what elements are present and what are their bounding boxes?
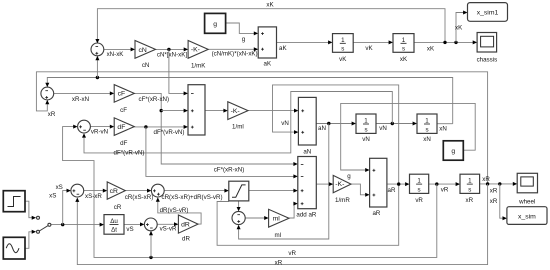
svg-text:aN: aN <box>303 148 311 155</box>
wire xN output corner (joins xN feedback line) <box>437 123 453 125</box>
svg-text:g: g <box>347 173 351 180</box>
svg-text:dR: dR <box>181 221 190 228</box>
wire aN output to vN integrator <box>316 122 356 126</box>
svg-text:-K-: -K- <box>191 47 200 54</box>
svg-text:s: s <box>341 46 344 53</box>
wire sum2 output xR-xN to cF <box>54 91 114 95</box>
svg-text:cN*[xN-xK]: cN*[xN-xK] <box>157 51 188 58</box>
svg-text:Δt: Δt <box>111 227 117 234</box>
wire aR branch vertical down to saturation bottom <box>217 184 399 245</box>
svg-text:aK: aK <box>279 45 287 52</box>
svg-text:xR-xN: xR-xN <box>72 96 89 103</box>
svg-text:1: 1 <box>341 37 345 44</box>
wire vK output to xK integrator <box>353 40 393 44</box>
to-workspace x_sim <box>507 207 547 225</box>
sum S2 (xR-xN) <box>41 87 54 100</box>
wire cF branch to addN input 2 <box>161 109 188 113</box>
svg-text:xR: xR <box>275 259 283 266</box>
svg-text:vN: vN <box>379 125 387 132</box>
wire add aR output to 1/mR <box>316 182 333 186</box>
junction dot xS <box>61 223 64 226</box>
svg-text:1: 1 <box>364 118 368 125</box>
svg-text:xR: xR <box>490 187 498 194</box>
junction dot xK to x_sim1 <box>454 41 457 44</box>
wire xN feedback line to sum2 top <box>45 78 452 124</box>
scope chassis <box>477 33 498 64</box>
svg-text:s: s <box>402 46 405 53</box>
svg-text:x_sim1: x_sim1 <box>477 10 499 17</box>
svg-text:g: g <box>451 148 455 155</box>
wire aK output to vK integrator <box>277 40 333 44</box>
wire aN branch down to sum7 bottom <box>237 124 329 240</box>
svg-text:cF: cF <box>120 107 127 114</box>
wire ml output up to add aR input 4 <box>289 202 298 218</box>
svg-text:xN-xK: xN-xK <box>107 51 125 58</box>
gain 1/ml <box>228 102 248 131</box>
integrator vK <box>333 34 354 63</box>
scope wheel <box>517 173 537 205</box>
gain ml <box>269 209 289 239</box>
wire aR branch vertical up to aN input 2 <box>273 85 399 184</box>
svg-text:add aR: add aR <box>296 212 316 219</box>
svg-text:g: g <box>242 36 246 43</box>
svg-text:1: 1 <box>417 178 421 185</box>
wire xK branch to x_sim1 <box>456 11 468 43</box>
svg-text:aR: aR <box>372 210 380 217</box>
wire cN output with junction to 1/mK <box>156 47 189 51</box>
junction dot vR line to sum6 <box>149 256 152 259</box>
sum S4 (xS-xR) <box>71 184 84 197</box>
sum S7 (friction) <box>232 211 245 224</box>
svg-text:cR(xS-xR)+dR(vS-vR): cR(xS-xR)+dR(vS-vR) <box>161 194 222 201</box>
svg-text:dF*(vR-vN): dF*(vR-vN) <box>154 129 185 136</box>
svg-text:-K-: -K- <box>335 181 344 188</box>
svg-text:xK: xK <box>427 45 435 52</box>
wire step source to switch <box>25 201 36 220</box>
integrator xK <box>393 34 414 63</box>
junction dot vN output <box>391 122 394 125</box>
svg-text:vS-vR: vS-vR <box>160 226 177 233</box>
svg-text:ml: ml <box>275 232 282 239</box>
svg-text:-K-: -K- <box>231 108 240 115</box>
wire xR bottom feedback to sum4 bottom <box>75 184 487 265</box>
wire sum7 output to ml gain <box>245 216 268 220</box>
svg-text:xR: xR <box>490 198 498 205</box>
saturation block <box>229 181 249 201</box>
svg-text:s: s <box>364 126 367 133</box>
svg-text:dR(vS-vR): dR(vS-vR) <box>160 207 189 214</box>
gain 1/mK <box>188 41 208 70</box>
svg-text:xK: xK <box>455 25 463 32</box>
wire vR output to xR integrator <box>429 182 460 186</box>
wire g constant to aK <box>226 23 259 35</box>
gain cR <box>107 182 125 211</box>
manual switch <box>37 216 51 233</box>
svg-text:vN: vN <box>362 136 370 143</box>
wire dF output to addN input 3 <box>134 125 188 129</box>
wire cR output to sum5 <box>125 189 151 193</box>
svg-text:s: s <box>418 186 421 193</box>
integrator xR <box>460 174 480 204</box>
svg-text:vR: vR <box>441 187 449 194</box>
wire sum5 output to saturation <box>164 189 229 193</box>
svg-text:xR: xR <box>482 176 490 183</box>
integrator xN <box>417 114 437 143</box>
svg-text:s: s <box>425 126 428 133</box>
junction dot xK to top feedback <box>443 41 446 44</box>
gain cF <box>114 85 134 114</box>
wire addN output to 1/ml <box>205 109 228 113</box>
svg-text:(cN/mK)*(xN-xK): (cN/mK)*(xN-xK) <box>212 51 258 58</box>
wire sum6 output vS-vR to dR <box>157 222 178 226</box>
svg-text:cN: cN <box>138 47 146 54</box>
gain dF <box>114 118 134 147</box>
svg-text:aR: aR <box>388 187 396 194</box>
wire g block chain up and left to aR input 1 <box>341 103 476 172</box>
wire dR feedback to sum5 bottom <box>156 197 201 224</box>
wire sum4 output xS-xR to cR <box>84 189 108 193</box>
junction dot xR output 1 <box>486 182 489 185</box>
svg-text:vR-vN: vR-vN <box>91 128 108 135</box>
wire vR feedback down and left to sum3 left input <box>63 125 437 258</box>
wire vN output to xN integrator <box>376 122 417 126</box>
svg-text:cF: cF <box>118 91 126 98</box>
wire 1/mK output to aK <box>208 47 258 51</box>
junction dot cF branch <box>160 109 163 112</box>
svg-text:cF*(xR-xN): cF*(xR-xN) <box>139 96 170 103</box>
integrator vN <box>356 114 376 143</box>
sum aN <box>298 97 316 155</box>
sum S1 (xN-xK) <box>91 43 104 56</box>
wire saturation bottom to sum7 top <box>237 201 241 212</box>
sum S3 (vR-vN) <box>78 120 91 133</box>
svg-text:xN: xN <box>439 126 447 133</box>
svg-text:xN: xN <box>423 136 431 143</box>
svg-text:aK: aK <box>264 60 272 67</box>
svg-text:cR: cR <box>110 188 118 195</box>
svg-text:xK: xK <box>400 56 408 63</box>
wire cN branch down to addN input 1 <box>169 49 188 95</box>
svg-text:cN: cN <box>142 62 150 69</box>
svg-text:wheel: wheel <box>518 198 535 205</box>
svg-text:aN: aN <box>318 125 326 132</box>
derivative du/dt <box>104 215 124 235</box>
sum S6 (vS-vR) <box>144 218 157 231</box>
wire 1/mR output to aR input 2 <box>351 184 370 197</box>
svg-text:s: s <box>468 186 471 193</box>
svg-text:1/mK: 1/mK <box>191 62 206 69</box>
junction dot dF output <box>144 125 147 128</box>
svg-text:vN: vN <box>281 120 289 127</box>
gain 1/mR <box>333 175 351 204</box>
sum aK <box>258 27 276 67</box>
svg-text:1/ml: 1/ml <box>232 124 244 131</box>
svg-text:1: 1 <box>402 37 406 44</box>
svg-text:xK: xK <box>266 2 274 9</box>
svg-text:dF*(vR-vN): dF*(vR-vN) <box>114 150 145 157</box>
source sine wave <box>3 237 25 259</box>
wire xS branch up to sum4 left <box>63 189 71 225</box>
junction dot aN output <box>327 122 330 125</box>
svg-text:vK: vK <box>339 56 347 63</box>
sum S5 (force sum) <box>151 184 164 197</box>
svg-text:xS: xS <box>49 193 56 200</box>
svg-text:ml: ml <box>273 215 281 222</box>
svg-text:cR(xS-xR): cR(xS-xR) <box>125 194 154 201</box>
wire xK output to chassis scope <box>414 40 477 44</box>
junction dot aR output <box>397 182 400 185</box>
wire switch output xS to derivative <box>51 223 104 227</box>
wire sum3 output vR-vN to dF <box>90 125 114 129</box>
svg-text:xR: xR <box>466 197 474 204</box>
svg-text:vK: vK <box>365 45 373 52</box>
wire dF branch down to add aR input 2 <box>146 127 298 178</box>
svg-text:g: g <box>213 21 217 28</box>
sum addN (3 inputs) <box>188 85 205 135</box>
to-workspace x_sim1 <box>468 3 508 22</box>
wire xR output to wheel scope <box>480 182 518 186</box>
constant g (right) <box>443 141 463 160</box>
svg-text:1: 1 <box>425 118 429 125</box>
integrator vR <box>410 174 429 204</box>
gain dR <box>178 215 198 243</box>
svg-text:dF: dF <box>117 124 125 131</box>
gain cN <box>135 41 156 69</box>
wire xR top feedback from xR junction to sum2 <box>36 72 487 184</box>
wire xK top feedback to sum1 <box>95 9 445 44</box>
svg-text:1: 1 <box>468 178 472 185</box>
svg-text:xS-xR: xS-xR <box>85 193 102 200</box>
source step <box>3 191 25 212</box>
svg-text:cF*(xR-xN): cF*(xR-xN) <box>214 167 245 174</box>
wire sine source to switch <box>25 230 36 249</box>
svg-text:dR: dR <box>182 236 190 243</box>
svg-text:chassis: chassis <box>477 56 498 63</box>
sum add aR (4 inputs) <box>296 157 316 219</box>
wire vN feedback to sum3 bottom <box>82 92 392 153</box>
wire vR branch up to sum6 bottom <box>149 231 153 258</box>
svg-text:xR: xR <box>48 111 56 118</box>
svg-text:vR: vR <box>415 197 423 204</box>
wire saturation output to add aR input 3 <box>249 189 298 193</box>
svg-text:vS: vS <box>126 226 133 233</box>
wire sum1 output xN-xK <box>104 47 135 51</box>
wire aR output to vR integrator <box>387 182 410 186</box>
wire derivative output vS to sum6 <box>124 222 144 226</box>
junction dot xN line to sum1 <box>96 76 99 79</box>
wire 1/ml output to aN input 1 <box>248 109 298 113</box>
wire xN branch up to sum1 bottom <box>95 56 99 78</box>
svg-text:dF: dF <box>120 140 127 147</box>
svg-text:vR: vR <box>288 250 296 257</box>
svg-text:x_sim: x_sim <box>518 214 536 221</box>
svg-text:xS: xS <box>56 184 63 191</box>
wire xR branch to x_sim <box>500 184 507 220</box>
junction dot cN output <box>167 48 170 51</box>
svg-text:cR: cR <box>114 204 122 211</box>
constant g (top) <box>205 13 226 33</box>
wire cF output down with junction to add aR input 1 <box>134 93 297 166</box>
sum aR <box>370 158 387 217</box>
junction dot vR output <box>435 182 438 185</box>
svg-text:1/mR: 1/mR <box>335 197 350 204</box>
junction dot xR output 2 <box>498 182 501 185</box>
